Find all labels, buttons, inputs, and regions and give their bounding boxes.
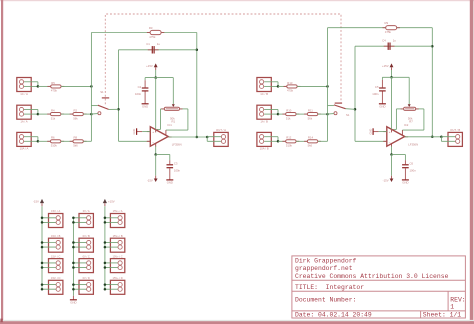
power +15V B: [390, 63, 394, 67]
wire to R4: [38, 113, 51, 115]
svg-text:C6: C6: [410, 162, 414, 166]
svg-text:1A / A: 1A / A: [20, 120, 27, 124]
wire output pin join B: [440, 137, 442, 142]
wire X7 pin1: [264, 136, 278, 138]
wire feedback vertical A: [196, 33, 198, 138]
op-amp pin stubs A: [147, 130, 172, 147]
svg-text:510k: 510k: [51, 144, 58, 148]
pins connector P3: [56, 261, 60, 270]
svg-text:IC2: IC2: [404, 123, 409, 127]
junction connector P1 pin1: [41, 217, 44, 220]
pin power grid col3: [104, 203, 106, 206]
wire inverting input A: [119, 140, 151, 142]
svg-text:R6: R6: [51, 136, 55, 140]
svg-text:10A / B: 10A / B: [260, 147, 269, 151]
pins connector X8: [456, 135, 460, 144]
svg-text:GND: GND: [167, 181, 173, 185]
pins connector X7: [260, 135, 264, 144]
junction connector Q1 pin1: [104, 217, 107, 220]
resistor R3: [147, 30, 164, 34]
wire X5 pin1: [264, 81, 278, 83]
svg-text:+: +: [389, 130, 391, 134]
title block text: [295, 257, 466, 318]
svg-text:100n: 100n: [174, 169, 181, 173]
wire V- pin A: [155, 146, 157, 154]
wire X6 pin2: [264, 113, 278, 115]
svg-text:R13: R13: [287, 81, 293, 85]
wire to R6: [38, 140, 51, 142]
svg-text:GND: GND: [402, 181, 408, 185]
junction connector P3 pin2: [41, 266, 44, 269]
pin power grid col1: [41, 203, 43, 206]
svg-text:-15V: -15V: [33, 200, 39, 204]
junction connector G1 pin1: [72, 217, 75, 220]
wire V+ rail A: [145, 77, 173, 79]
wire X2 to bus: [83, 113, 91, 115]
junction feedback cap A: [196, 49, 199, 52]
wire feedback top B: [328, 27, 433, 29]
wire X2 pin2: [24, 113, 38, 115]
connector X7: [257, 132, 271, 146]
junction switch common B: [354, 108, 357, 111]
svg-text:C3: C3: [174, 162, 178, 166]
wire dashed switch gang link: [105, 14, 341, 104]
svg-text:15V+ / A: 15V+ / A: [113, 209, 123, 213]
trimpot R7 wiper arrow: [408, 104, 411, 107]
op-amp IC1 LF356N: [150, 127, 168, 147]
svg-text:56k: 56k: [308, 116, 313, 120]
wire X3 pin join: [37, 137, 39, 142]
pin C5 bottom: [381, 92, 383, 104]
pin C2 bottom: [144, 92, 146, 104]
junction X6: [277, 113, 280, 116]
svg-text:R3: R3: [149, 26, 153, 30]
wire X5 pin2: [264, 85, 278, 87]
pins connector G3: [87, 261, 91, 270]
wire output pin1 B: [441, 136, 457, 138]
pins connector G2: [87, 240, 91, 249]
wire pot right B: [416, 108, 424, 110]
pin C3 bottom: [169, 168, 171, 180]
svg-text:56k: 56k: [73, 116, 78, 120]
wire to C5: [381, 77, 383, 80]
wire grid bus col2: [72, 218, 74, 296]
pins trimpot R1: [161, 108, 182, 110]
wire X2 pin join: [37, 110, 39, 115]
pins connector P1: [56, 216, 60, 225]
wire grid bus col3: [104, 206, 106, 289]
svg-text:100n: 100n: [372, 92, 379, 96]
pins connector X4: [221, 135, 225, 144]
wire inverting input B: [355, 140, 387, 142]
wire connector G2 pin2: [73, 246, 88, 248]
wire connector Q3 pin1: [105, 262, 120, 264]
power arrow grid col3: [103, 199, 107, 203]
svg-text:Sheet: 1/1: Sheet: 1/1: [423, 311, 462, 318]
ground C2 A: [142, 103, 149, 105]
pins connector Q2: [118, 240, 122, 249]
wire output pin join A: [206, 137, 208, 142]
svg-text:0V / B: 0V / B: [83, 234, 90, 238]
junction V+ B: [390, 76, 393, 79]
svg-text:R2: R2: [74, 109, 78, 113]
wire X3 to bus: [83, 140, 91, 142]
pins connector Q4: [118, 283, 122, 292]
junction connector P4 pin1: [41, 283, 44, 286]
svg-text:TITLE: Integrator: TITLE: Integrator: [295, 284, 364, 291]
wire connector Q3 pin2: [105, 267, 120, 269]
junction V+ A: [154, 76, 157, 79]
pin ground grid: [72, 296, 74, 300]
svg-text:R4: R4: [51, 109, 55, 113]
wire cap line A: [119, 49, 197, 51]
svg-text:Date: 04.02.14 20:49: Date: 04.02.14 20:49: [295, 311, 372, 318]
junction connector G1 pin2: [72, 221, 75, 224]
wire connector Q4 pin1: [105, 284, 120, 286]
svg-text:0V / D: 0V / D: [83, 276, 90, 280]
pin -15V B: [391, 176, 393, 179]
svg-text:C2: C2: [138, 85, 142, 89]
wire X3 pin2: [24, 140, 38, 142]
wire X7 to bus: [318, 140, 328, 142]
wire V+ pin B: [391, 77, 393, 129]
svg-text:0V / C: 0V / C: [83, 254, 90, 258]
wire cap line B: [355, 45, 432, 47]
svg-text:+15V: +15V: [146, 64, 153, 68]
svg-text:grappendorf.net: grappendorf.net: [295, 265, 353, 272]
svg-text:R11: R11: [308, 109, 313, 113]
junction X3: [37, 140, 40, 143]
title block frame: [292, 256, 466, 318]
junction X2: [37, 113, 40, 116]
connector Q3: [110, 259, 124, 273]
resistor R6: [47, 140, 64, 143]
wire switch common A: [109, 108, 119, 110]
power -15V A: [154, 179, 158, 183]
connector Q1: [110, 214, 124, 228]
svg-text:GND: GND: [368, 129, 372, 135]
svg-text:10A / A: 10A / A: [20, 147, 29, 151]
power -15V B: [390, 179, 394, 183]
wire connector P4 pin2: [42, 288, 58, 290]
wire connector P2 pin2: [42, 246, 58, 248]
junction switch common A: [117, 108, 120, 111]
wire balance left to pin1 B: [393, 128, 396, 130]
wire connector P1 pin2: [42, 221, 58, 223]
svg-text:+15V: +15V: [382, 64, 389, 68]
pins connector X6: [260, 107, 264, 116]
pins connector X1: [19, 80, 23, 89]
wire output pin1 A: [207, 136, 223, 138]
svg-text:+15V: +15V: [108, 200, 115, 204]
connector P1: [49, 214, 63, 228]
pin C6 bottom: [404, 168, 406, 180]
junction V- A: [154, 153, 157, 156]
wire X1 to bus: [61, 85, 91, 87]
wire to R5: [38, 85, 51, 87]
wire X7 pin2: [264, 140, 278, 142]
pins connector G1: [87, 216, 91, 225]
svg-text:R14: R14: [308, 136, 314, 140]
connector G2: [79, 238, 93, 252]
svg-text:R12: R12: [286, 136, 292, 140]
svg-text:15V- / C: 15V- / C: [51, 254, 60, 258]
connector P3: [49, 259, 63, 273]
wire X2 pin1: [24, 109, 38, 111]
connector X4: [214, 132, 228, 146]
trimpot R1 body: [164, 107, 179, 110]
junction connector Q4 pin2: [104, 288, 107, 291]
junction output pins B: [440, 136, 443, 139]
junction connector P1 pin2: [41, 221, 44, 224]
wire connector P4 pin1: [42, 284, 58, 286]
svg-text:LF356N: LF356N: [408, 142, 418, 146]
junction connector P4 pin2: [41, 288, 44, 291]
capacitor C2: [142, 87, 149, 91]
svg-text:15V+ / C: 15V+ / C: [113, 254, 123, 258]
wire balance right vert B: [423, 109, 425, 130]
junction connector Q2 pin1: [104, 241, 107, 244]
connector P4: [49, 280, 63, 294]
svg-text:+: +: [152, 130, 154, 134]
svg-text:Dirk Grappendorf: Dirk Grappendorf: [295, 257, 357, 264]
pin stubs balance B: [393, 129, 402, 135]
wire to R13: [278, 85, 287, 87]
wire connector G3 pin1: [73, 262, 88, 264]
svg-text:OUT / A: OUT / A: [216, 128, 226, 132]
pin C5 top: [381, 80, 383, 88]
connector X6: [257, 105, 271, 119]
svg-text:15V- / D: 15V- / D: [51, 276, 60, 280]
wire V- down A: [155, 155, 157, 176]
resistor R11: [304, 113, 321, 116]
svg-text:R1: R1: [172, 120, 176, 124]
resistor R2: [70, 113, 87, 116]
svg-text:100n: 100n: [410, 169, 417, 173]
svg-text:0V / A: 0V / A: [83, 209, 90, 213]
svg-text:LF356N: LF356N: [172, 142, 182, 146]
wire to R10: [278, 113, 286, 115]
pins connector P4: [56, 283, 60, 292]
wire to C3: [169, 155, 171, 161]
svg-text:R10: R10: [286, 109, 292, 113]
svg-text:Creative Commons Attribution 3: Creative Commons Attribution 3.0 License: [295, 273, 449, 280]
junction connector G3 pin2: [72, 266, 75, 269]
junction output pins A: [206, 136, 209, 139]
svg-text:475k: 475k: [51, 89, 58, 93]
resistor R8: [70, 140, 87, 143]
svg-text:1: 1: [450, 303, 454, 310]
capacitor C3: [167, 164, 174, 168]
pin +15V A: [155, 67, 157, 70]
svg-text:15V+ / D: 15V+ / D: [113, 276, 123, 280]
connector X3: [17, 132, 31, 146]
svg-text:510k: 510k: [286, 144, 293, 148]
resistor R12: [282, 140, 299, 143]
pins connector X5: [260, 80, 264, 89]
wire connector P2 pin1: [42, 242, 58, 244]
wire connector G3 pin2: [73, 267, 88, 269]
wire X3 pin1: [24, 136, 38, 138]
svg-text:GND: GND: [132, 129, 136, 135]
junction bus row2 B: [326, 113, 329, 116]
wire +15V down B: [391, 70, 393, 77]
ground at + input B: [373, 128, 387, 135]
svg-text:R8: R8: [74, 136, 78, 140]
wire input bus A: [90, 33, 92, 142]
junction bus row1 B: [326, 85, 329, 88]
pins connector G4: [87, 283, 91, 292]
svg-text:15V- / A: 15V- / A: [51, 209, 60, 213]
svg-text:S1: S1: [100, 90, 104, 94]
connector X2: [17, 105, 31, 119]
svg-text:-15V: -15V: [383, 179, 389, 183]
svg-text:R9: R9: [385, 21, 389, 25]
svg-text:GND: GND: [379, 105, 385, 109]
junction connector G4 pin1: [72, 283, 75, 286]
pin C3 top: [169, 160, 171, 164]
junction feedback out A: [196, 136, 199, 139]
pin C2 top: [144, 80, 146, 87]
wire to R14: [296, 140, 307, 142]
connector X1: [17, 78, 31, 92]
pins connector Q1: [118, 216, 122, 225]
wire connector G1 pin2: [73, 221, 88, 223]
svg-text:1A / B: 1A / B: [260, 120, 268, 124]
wire connector G2 pin1: [73, 242, 88, 244]
svg-text:1C / A: 1C / A: [20, 92, 28, 96]
svg-text:C5: C5: [375, 85, 379, 89]
wire output pin2 B: [441, 140, 457, 142]
junction connector P3 pin1: [41, 262, 44, 265]
wire balance left vert A: [160, 109, 162, 129]
svg-text:51k: 51k: [286, 116, 291, 120]
wire connector P3 pin1: [42, 262, 58, 264]
wire X5 pin join: [277, 82, 279, 87]
resistor R5: [47, 85, 64, 88]
pins connector Q3: [118, 261, 122, 270]
junction connector G4 pin2: [72, 288, 75, 291]
wire switch common B: [346, 108, 356, 111]
svg-text:R5: R5: [51, 81, 55, 85]
wire connector G4 pin2: [73, 288, 88, 290]
svg-text:GND: GND: [142, 105, 148, 109]
ground C6 B: [402, 179, 409, 181]
wire pot left A: [161, 108, 165, 110]
junction connector P2 pin2: [41, 246, 44, 249]
svg-text:100n: 100n: [135, 92, 142, 96]
wire connector P1 pin1: [42, 217, 58, 219]
wire connector Q2 pin2: [105, 246, 120, 248]
connector G3: [79, 259, 93, 273]
pin -15V A: [155, 176, 157, 179]
junction connector Q2 pin2: [104, 246, 107, 249]
resistor R4: [47, 113, 64, 116]
junction connector Q4 pin1: [104, 283, 107, 286]
junction connector G2 pin1: [72, 241, 75, 244]
wire wiper B: [408, 77, 410, 104]
wire X6 pin1: [264, 109, 278, 111]
svg-text:475k: 475k: [149, 35, 156, 39]
connector X5: [257, 78, 271, 92]
wire V+ rail B: [382, 76, 409, 78]
wire connector P3 pin2: [42, 267, 58, 269]
svg-text:−: −: [152, 140, 154, 144]
wire output A: [168, 136, 207, 138]
connector G4: [79, 280, 93, 294]
capacitor C6: [402, 164, 409, 168]
junction X5: [277, 85, 280, 88]
wire X6 pin join: [277, 110, 279, 115]
pins connector P2: [56, 240, 60, 249]
junction X7: [277, 140, 280, 143]
wire balance right vert A: [187, 109, 189, 130]
wire +15V down A: [155, 70, 157, 78]
ground C3 A: [166, 179, 173, 181]
svg-text:1u: 1u: [157, 42, 161, 46]
resistor R14: [304, 140, 321, 143]
junction connector G2 pin2: [72, 246, 75, 249]
wire V- branch A: [156, 154, 170, 156]
svg-text:51k: 51k: [51, 116, 56, 120]
wire V+ pin A: [155, 78, 157, 130]
wire feedback top A: [91, 32, 196, 34]
svg-text:C1: C1: [146, 42, 150, 46]
wire pot left B: [396, 108, 403, 110]
capacitor C4: [384, 43, 395, 50]
trimpot R7 body: [404, 107, 416, 110]
power +15V A: [154, 63, 158, 67]
ground grid: [70, 299, 77, 301]
resistor R9: [383, 26, 400, 30]
svg-text:5k6: 5k6: [73, 144, 78, 148]
ground at + input A: [137, 128, 151, 135]
svg-text:475k: 475k: [287, 89, 294, 93]
wire grid bus col1: [41, 206, 43, 289]
power arrow grid col1: [40, 199, 44, 203]
pins trimpot R7: [401, 108, 419, 110]
pin +15V B: [391, 67, 393, 70]
switch S1 A: [91, 98, 109, 115]
pins connector X3: [19, 135, 23, 144]
connector Q4: [110, 280, 124, 294]
resistor R13: [284, 85, 301, 88]
junction connector Q1 pin2: [104, 221, 107, 224]
wire to R2: [61, 113, 73, 115]
wire feedback vertical B: [431, 28, 433, 137]
connector Q2: [110, 238, 124, 252]
wire V- down B: [391, 155, 393, 176]
svg-text:R7: R7: [409, 120, 413, 124]
wire V- pin B: [391, 146, 393, 154]
wire balance left to pin1 A: [157, 128, 161, 130]
wire wiper A: [172, 78, 174, 105]
svg-text:C4: C4: [382, 38, 386, 42]
svg-text:5k6: 5k6: [308, 144, 313, 148]
wire connector G1 pin1: [73, 217, 88, 219]
junction bus row1 A: [90, 85, 93, 88]
svg-text:GND: GND: [70, 301, 76, 305]
junction feedback out B: [431, 136, 434, 139]
svg-text:1C / B: 1C / B: [260, 92, 268, 96]
junction connector G3 pin1: [72, 262, 75, 265]
wire inverting vertical B: [354, 46, 356, 141]
svg-text:OUT / B: OUT / B: [450, 128, 460, 132]
capacitor C5: [379, 87, 386, 91]
svg-text:15V+ / B: 15V+ / B: [113, 234, 123, 238]
svg-text:Document Number:: Document Number:: [295, 297, 356, 304]
wire to C2: [144, 78, 146, 81]
